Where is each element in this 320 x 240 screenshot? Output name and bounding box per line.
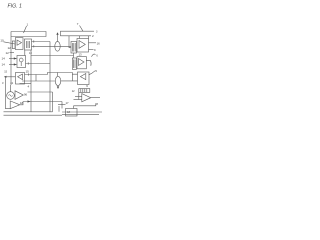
label 7 leader xyxy=(80,26,84,32)
wire y105.8 with hook xyxy=(74,103,96,106)
receiver amp V2 box xyxy=(16,73,25,85)
svg-text:14: 14 xyxy=(2,63,6,67)
bus line L1 right segment xyxy=(61,31,95,36)
bus line L1 (upper conductor) xyxy=(11,32,46,37)
svg-text:8: 8 xyxy=(96,102,98,106)
junction tick a xyxy=(33,40,35,42)
vertical drop x69 from L2b xyxy=(69,36,71,48)
V4 out wire lower xyxy=(89,48,94,50)
wire into coupler K2 xyxy=(22,80,55,82)
vertical stub x36 xyxy=(35,75,37,82)
V9 input wire b xyxy=(74,99,82,101)
junction tick c xyxy=(27,62,29,64)
svg-text:41: 41 xyxy=(10,81,13,85)
V6 out leader xyxy=(89,71,95,75)
junction tick b xyxy=(33,45,35,47)
svg-text:6: 6 xyxy=(96,55,98,58)
junction tick d xyxy=(28,73,30,75)
coupler K2 tap xyxy=(57,73,59,77)
svg-text:15: 15 xyxy=(26,70,30,74)
amp V7 triangle xyxy=(15,91,23,100)
svg-text:12: 12 xyxy=(72,90,75,93)
receiver amp V6 box xyxy=(78,72,90,85)
svg-text:14: 14 xyxy=(2,57,6,61)
oscillator sine xyxy=(8,95,12,97)
V9 out wire xyxy=(91,97,100,99)
svg-text:9: 9 xyxy=(94,48,96,52)
coupler arrow up (to L1) xyxy=(57,33,59,41)
V5 out wire with hook xyxy=(86,61,91,66)
filter F4 hatch xyxy=(74,60,75,69)
lower bus line B2 left xyxy=(4,114,63,116)
input arrow b xyxy=(9,64,17,66)
svg-text:96: 96 xyxy=(24,93,28,97)
wire y104.5 cross xyxy=(58,104,66,106)
amp V8 input loop xyxy=(6,78,11,109)
vertical F3 to F4 xyxy=(73,53,75,58)
wire y101.5 xyxy=(23,101,62,103)
amp V8 triangle xyxy=(10,101,20,109)
svg-text:13: 13 xyxy=(29,52,32,55)
enclosure edge lower stub xyxy=(10,85,12,90)
wire y92 xyxy=(28,91,53,93)
V9 input wire a xyxy=(75,95,82,97)
lower bus line B1 left xyxy=(4,111,53,113)
svg-text:17: 17 xyxy=(66,101,70,105)
branch vertical x72.4 xyxy=(71,74,73,81)
svg-text:3: 3 xyxy=(96,31,98,34)
bus wire y55.5 xyxy=(31,55,74,57)
amp V5 triangle xyxy=(79,59,85,66)
corner stub xyxy=(73,106,75,109)
V4 out wire xyxy=(89,42,97,44)
curl xyxy=(92,54,96,57)
vertical x62 xyxy=(61,102,63,109)
amp V2 triangle (left) xyxy=(18,74,23,80)
V8 out elbow xyxy=(20,102,23,105)
amp V1 box xyxy=(15,38,23,50)
amp V5 box xyxy=(77,57,86,69)
oscillator circle xyxy=(7,92,15,100)
modulator box G1 xyxy=(17,56,26,68)
filter F4 box (hatched) xyxy=(72,58,76,69)
vertical x59 xyxy=(58,106,60,112)
feedback box R1 (hatched) xyxy=(79,89,90,93)
wire above osc xyxy=(20,83,32,85)
wire drop to block column right xyxy=(79,36,81,39)
vertical bus wire x50 xyxy=(49,42,51,112)
modulator circle xyxy=(19,58,23,62)
coupler oval K2 xyxy=(55,76,60,85)
vertical bus wire x31 xyxy=(30,50,32,112)
amp V4 triangle xyxy=(79,41,85,49)
enclosure left edge xyxy=(10,32,12,86)
svg-text:4: 4 xyxy=(28,85,30,89)
label 12b speck xyxy=(10,52,15,54)
input arrow a xyxy=(9,58,17,60)
wire K2 to V3 xyxy=(61,80,78,82)
amp V1 triangle xyxy=(17,40,22,45)
filter F1 box (hatched) xyxy=(25,39,32,50)
lower bus line B1 right xyxy=(62,111,102,113)
wire F1 out through coupler K1 xyxy=(32,45,72,47)
coupler oval K1 xyxy=(55,41,60,51)
amp V6 triangle (left) xyxy=(80,74,85,80)
svg-text:FIG. 1: FIG. 1 xyxy=(8,4,23,10)
svg-text:13: 13 xyxy=(79,52,83,56)
amp V4 box xyxy=(77,39,89,53)
feedback left wire xyxy=(78,92,80,99)
modulator internal lead xyxy=(20,62,22,66)
svg-text:1: 1 xyxy=(27,23,29,27)
osc top tick xyxy=(10,90,12,92)
filter F3 hatch xyxy=(72,43,75,52)
svg-text:15: 15 xyxy=(4,70,7,73)
svg-text:2: 2 xyxy=(92,34,94,38)
vertical x52.5 xyxy=(52,92,54,112)
V2 output arrow left xyxy=(4,76,15,78)
filter F1 hatch xyxy=(26,41,29,48)
wire F1 out upper xyxy=(32,41,51,43)
input connector box xyxy=(12,41,15,49)
leader from 10 into amp V1 xyxy=(4,42,16,44)
svg-text:16: 16 xyxy=(97,41,101,45)
svg-text:12: 12 xyxy=(8,46,12,50)
filter F3 box (hatched) right top xyxy=(71,42,77,54)
coupler arrow down xyxy=(57,86,59,88)
terminator box Z1 xyxy=(66,109,78,117)
wire y72.5 center xyxy=(48,73,78,75)
wire G1 out xyxy=(26,63,51,65)
svg-text:7: 7 xyxy=(77,22,79,26)
svg-text:5: 5 xyxy=(95,69,97,73)
V2 input wire xyxy=(25,74,48,76)
svg-text:12: 12 xyxy=(6,51,10,55)
wire A-prime to G1 xyxy=(24,50,26,56)
lower bus line B2 right xyxy=(62,114,99,116)
wire drop at 88.5 xyxy=(88,36,90,39)
node 1 leader tick xyxy=(24,26,27,33)
svg-text:3: 3 xyxy=(2,81,4,85)
amp V9 triangle xyxy=(82,94,91,102)
